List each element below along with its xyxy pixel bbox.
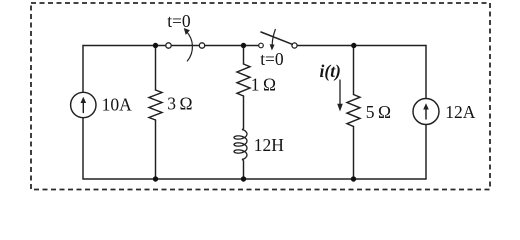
label t=0 for switch S2 [260, 49, 284, 69]
switch S1 opening arc arrow [184, 28, 193, 61]
wire: top rail between switch S1 contacts (closed blade) [171, 45, 199, 47]
junction node: bottom of 3-ohm [153, 176, 158, 181]
wire: top rail segment S2 to right corner [297, 45, 426, 47]
svg-text:10A: 10A [102, 95, 133, 115]
value label 3-ohm [167, 94, 192, 114]
switch S1 contact circle right [199, 43, 204, 48]
current source I2 12A [413, 99, 439, 125]
svg-text:12A: 12A [445, 102, 476, 122]
label t=0 for switch S1 [167, 11, 191, 31]
wire: right rail (12A branch) [425, 46, 427, 180]
switch S2 closing arrow [270, 30, 276, 51]
svg-text:5 Ω: 5 Ω [366, 102, 391, 122]
junction node: top of middle branch [241, 43, 246, 48]
junction node: top of 3-ohm [153, 43, 158, 48]
switch S2 blade (open, raised) [261, 32, 292, 44]
value label 12A [445, 102, 476, 122]
svg-text:3 Ω: 3 Ω [167, 94, 192, 114]
switch S2 contact circle left [259, 43, 264, 48]
value label 5-ohm [366, 102, 391, 122]
junction node: bottom of middle branch [241, 176, 246, 181]
value label 10A [102, 95, 133, 115]
resistor R2 1-ohm [237, 64, 250, 96]
current source I1 10A [71, 92, 96, 117]
switch S1 contact circle left [166, 43, 171, 48]
wire: middle branch stubs (1-ohm / 12H) [242, 46, 245, 180]
svg-text:t=0: t=0 [167, 11, 191, 31]
svg-text:i(t): i(t) [320, 61, 341, 81]
switch S2 contact circle right (hinge) [292, 43, 297, 48]
svg-text:12H: 12H [254, 135, 285, 155]
value label 12H [254, 135, 285, 155]
junction node: bottom of 5-ohm [351, 176, 356, 181]
resistor R1 3-ohm [149, 90, 162, 120]
junction node: top of 5-ohm [351, 43, 356, 48]
wire: left rail (10A branch) [82, 46, 84, 180]
svg-text:t=0: t=0 [260, 49, 284, 69]
current arrow i(t) [337, 80, 343, 112]
current label i(t) [320, 61, 341, 81]
inductor L1 12H [234, 130, 247, 160]
wire: 5-ohm branch stubs [353, 46, 355, 180]
wire: top rail segment S1 to S2 [205, 45, 259, 47]
resistor R3 5-ohm [347, 95, 360, 127]
wire: 3-ohm branch stubs [155, 46, 157, 180]
wire: bottom rail [83, 178, 426, 180]
value label 1-ohm [251, 74, 276, 94]
wire: top rail left segment [83, 45, 166, 47]
svg-text:1 Ω: 1 Ω [251, 74, 276, 94]
